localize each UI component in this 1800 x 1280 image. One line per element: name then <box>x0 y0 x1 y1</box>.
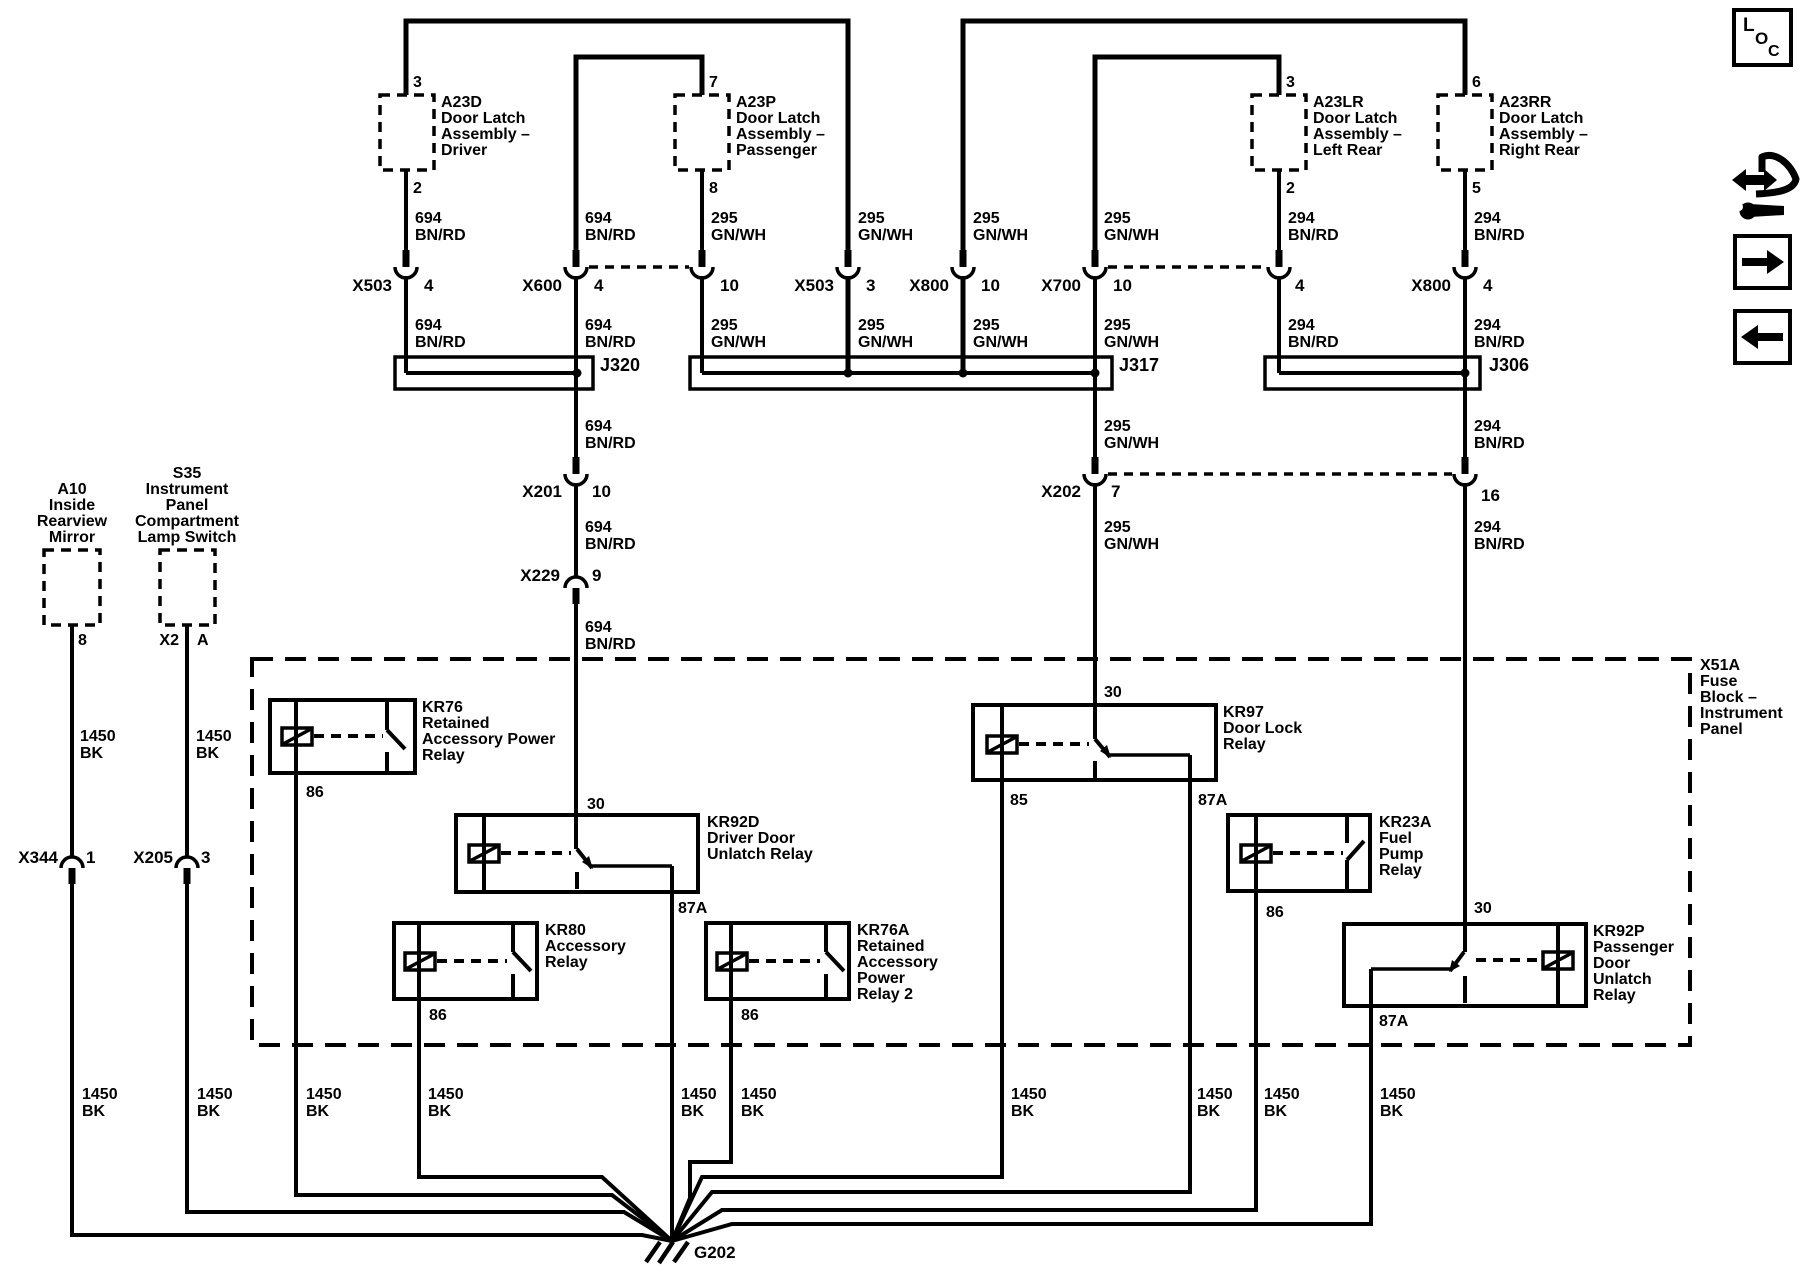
wire label 1450 BK (A10 ground leg) <box>82 1086 118 1120</box>
svg-text:Lamp Switch: Lamp Switch <box>138 529 237 546</box>
door latch assembly A23LR (left rear) <box>1252 94 1402 170</box>
wire label 1450 BK (KR76 ground leg) <box>306 1086 342 1120</box>
svg-text:GN/WH: GN/WH <box>1104 334 1159 351</box>
pin 8 of A23P <box>709 180 718 197</box>
wire: KR92P pin 87A to ground G202 <box>672 969 1371 1241</box>
wire: KR23A pin 86 to ground G202 <box>672 891 1256 1241</box>
door latch assembly A23D (driver) <box>380 94 530 170</box>
svg-text:Passenger: Passenger <box>736 142 817 159</box>
wire label 294 BN/RD below X800-4 <box>1474 317 1525 351</box>
wire label 1450 BK (KR80 ground leg) <box>428 1086 464 1120</box>
svg-text:X229: X229 <box>520 566 560 585</box>
wire: pin4 to J306 <box>1277 276 1281 373</box>
pin 3 of A23LR <box>1286 74 1295 91</box>
wire: J317 to X202 pin 7 <box>1093 373 1097 459</box>
relay KR80 accessory relay <box>394 922 626 999</box>
svg-text:7: 7 <box>1111 482 1120 501</box>
pin X2/A of S35 <box>159 632 209 649</box>
wire: A23RR pin 5 down to connector X800-4 <box>1463 170 1467 252</box>
pin 2 of A23LR <box>1286 180 1295 197</box>
svg-text:X51A: X51A <box>1700 657 1740 674</box>
wire label 694 BN/RD (X600 drop) <box>585 210 636 244</box>
pin 6 of A23RR <box>1472 74 1481 91</box>
wire label 1450 BK (KR97-87A ground leg) <box>1197 1086 1233 1120</box>
svg-text:X503: X503 <box>794 276 834 295</box>
pin 30 of KR92P <box>1474 900 1492 917</box>
svg-text:295: 295 <box>1104 418 1131 435</box>
svg-text:10: 10 <box>720 276 739 295</box>
svg-text:GN/WH: GN/WH <box>711 227 766 244</box>
svg-text:X600: X600 <box>522 276 562 295</box>
svg-text:295: 295 <box>1104 317 1131 334</box>
svg-text:GN/WH: GN/WH <box>973 227 1028 244</box>
wire label 295 GN/WH (X800-10 drop) <box>973 210 1028 244</box>
svg-text:1450: 1450 <box>196 728 232 745</box>
svg-text:30: 30 <box>1104 684 1122 701</box>
svg-text:O: O <box>1755 29 1768 48</box>
wire: KR97 pin 87A to ground G202 <box>672 755 1190 1241</box>
wire label 295 GN/WH (X503-3 drop) <box>858 210 913 244</box>
wire: KR76 pin 86 to ground G202 <box>296 773 672 1241</box>
svg-text:Door Lock: Door Lock <box>1223 720 1302 737</box>
svg-text:7: 7 <box>709 74 718 91</box>
icon: arrow left box <box>1735 311 1790 363</box>
wire label 295 GN/WH above X202-7 <box>1104 418 1159 452</box>
svg-text:1450: 1450 <box>1011 1086 1047 1103</box>
connector X229 pin 9 <box>520 566 601 604</box>
svg-text:294: 294 <box>1474 210 1501 227</box>
svg-text:X700: X700 <box>1041 276 1081 295</box>
svg-text:X205: X205 <box>133 848 173 867</box>
svg-text:BK: BK <box>1380 1103 1404 1120</box>
svg-text:BN/RD: BN/RD <box>1474 334 1525 351</box>
wire label 694 BN/RD (A23D pin 2) <box>415 210 466 244</box>
svg-text:694: 694 <box>415 210 442 227</box>
wire label 694 BN/RD below X229 <box>585 619 636 653</box>
svg-text:BN/RD: BN/RD <box>1288 334 1339 351</box>
svg-text:Relay 2: Relay 2 <box>857 986 913 1003</box>
wire: KR92D pin 87A to ground G202 <box>670 866 674 1242</box>
wire label 1450 BK (KR92P ground leg) <box>1380 1086 1416 1120</box>
svg-text:Left Rear: Left Rear <box>1313 142 1382 159</box>
svg-text:Driver: Driver <box>441 142 487 159</box>
svg-text:BK: BK <box>1011 1103 1035 1120</box>
wire: X800-10 to J317 <box>961 276 966 373</box>
ground G202 <box>646 1242 736 1263</box>
svg-text:30: 30 <box>1474 900 1492 917</box>
wire label 294 BN/RD below X202-16 <box>1474 519 1525 553</box>
legend box LOC <box>1734 10 1791 65</box>
wire: X700-10 through J317 <box>1093 276 1097 373</box>
svg-text:1450: 1450 <box>1380 1086 1416 1103</box>
svg-text:694: 694 <box>585 519 612 536</box>
svg-text:Panel: Panel <box>1700 721 1743 738</box>
svg-text:X503: X503 <box>352 276 392 295</box>
relay KR23A fuel pump relay <box>1228 814 1432 891</box>
svg-text:Fuel: Fuel <box>1379 830 1412 847</box>
connector X503 pin 3 <box>794 250 875 295</box>
wire label 294 BN/RD (A23RR pin 5) <box>1474 210 1525 244</box>
wire label 1450 BK (S35 ground leg) <box>197 1086 233 1120</box>
svg-text:GN/WH: GN/WH <box>1104 227 1159 244</box>
svg-text:KR76: KR76 <box>422 699 463 716</box>
svg-text:KR23A: KR23A <box>1379 814 1432 831</box>
svg-text:A23D: A23D <box>441 94 482 111</box>
svg-text:BK: BK <box>741 1103 765 1120</box>
svg-text:1450: 1450 <box>681 1086 717 1103</box>
wire: X600-4 through J320 <box>574 276 578 373</box>
svg-text:J317: J317 <box>1119 355 1159 375</box>
connector X700 pin 10 <box>1041 250 1132 295</box>
svg-text:BN/RD: BN/RD <box>1288 227 1339 244</box>
svg-text:C: C <box>1768 43 1780 60</box>
wire label 295 GN/WH (X700-10 drop) <box>1104 210 1159 244</box>
wire: KR80 pin 86 to ground G202 <box>419 999 672 1241</box>
splice pack J320 <box>395 355 640 389</box>
pin 87A of KR97 <box>1198 792 1228 809</box>
wire: A23P pin 8 down to connector pin 10 <box>700 170 704 252</box>
wire label 694 BN/RD below X201 <box>585 519 636 553</box>
svg-text:Passenger: Passenger <box>1593 939 1674 956</box>
svg-text:X800: X800 <box>909 276 949 295</box>
wire: feed from A23D pin 3 to X503 pin 3 drop <box>406 21 848 252</box>
svg-text:295: 295 <box>711 317 738 334</box>
svg-text:86: 86 <box>306 784 324 801</box>
dashed connector link X700 to pin 4 <box>1108 265 1266 269</box>
svg-text:295: 295 <box>973 317 1000 334</box>
svg-text:J320: J320 <box>600 355 640 375</box>
svg-text:Mirror: Mirror <box>49 529 95 546</box>
svg-text:Unlatch: Unlatch <box>1593 971 1652 988</box>
svg-text:3: 3 <box>866 276 875 295</box>
svg-text:A23P: A23P <box>736 94 776 111</box>
splice pack J306 <box>1265 355 1529 389</box>
svg-text:Assembly –: Assembly – <box>441 126 530 143</box>
svg-text:BN/RD: BN/RD <box>1474 227 1525 244</box>
svg-text:9: 9 <box>592 566 601 585</box>
wire label 294 BN/RD (A23LR pin 2) <box>1288 210 1339 244</box>
svg-text:Rearview: Rearview <box>37 513 108 530</box>
svg-text:Door: Door <box>1593 955 1630 972</box>
svg-text:A23LR: A23LR <box>1313 94 1364 111</box>
svg-text:BK: BK <box>80 745 104 762</box>
wire: feed from X800 pin 10 drop to A23RR pin 6 <box>963 21 1465 252</box>
svg-text:A: A <box>197 632 209 649</box>
connector pin 4 (A23LR side of X700) <box>1268 250 1305 295</box>
svg-text:Door Latch: Door Latch <box>1499 110 1583 127</box>
connector X205 pin 3 <box>133 848 210 884</box>
svg-text:BK: BK <box>196 745 220 762</box>
svg-text:Relay: Relay <box>545 954 588 971</box>
svg-text:16: 16 <box>1481 486 1500 505</box>
svg-text:4: 4 <box>1295 276 1305 295</box>
relay KR97 door lock relay <box>973 704 1302 780</box>
svg-text:Door Latch: Door Latch <box>1313 110 1397 127</box>
svg-text:5: 5 <box>1472 180 1481 197</box>
relay KR92D driver door unlatch relay <box>456 814 813 892</box>
svg-text:Block –: Block – <box>1700 689 1757 706</box>
svg-text:BN/RD: BN/RD <box>1474 435 1525 452</box>
svg-text:3: 3 <box>413 74 422 91</box>
svg-text:Instrument: Instrument <box>146 481 229 498</box>
wire label 295 GN/WH below X503-3 <box>858 317 913 351</box>
svg-text:3: 3 <box>201 848 210 867</box>
wire label 294 BN/RD below pin 4 <box>1288 317 1339 351</box>
svg-text:GN/WH: GN/WH <box>973 334 1028 351</box>
connector X202 pin 7 <box>1041 457 1120 501</box>
svg-text:10: 10 <box>1113 276 1132 295</box>
svg-text:Accessory Power: Accessory Power <box>422 731 555 748</box>
svg-text:1: 1 <box>86 848 95 867</box>
svg-text:L: L <box>1743 15 1755 36</box>
connector X503 pin 4 <box>352 250 434 295</box>
svg-text:Fuse: Fuse <box>1700 673 1737 690</box>
svg-text:BN/RD: BN/RD <box>585 227 636 244</box>
pin 85 of KR97 <box>1010 792 1028 809</box>
svg-text:Accessory: Accessory <box>857 954 938 971</box>
pin 86 of KR23A <box>1266 904 1284 921</box>
svg-text:Power: Power <box>857 970 905 987</box>
svg-text:Inside: Inside <box>49 497 95 514</box>
svg-text:87A: 87A <box>678 900 708 917</box>
svg-text:10: 10 <box>592 482 611 501</box>
svg-text:BN/RD: BN/RD <box>585 636 636 653</box>
svg-text:J306: J306 <box>1489 355 1529 375</box>
svg-text:1450: 1450 <box>741 1086 777 1103</box>
svg-text:Assembly –: Assembly – <box>736 126 825 143</box>
svg-text:BN/RD: BN/RD <box>415 227 466 244</box>
svg-text:GN/WH: GN/WH <box>1104 536 1159 553</box>
svg-text:1450: 1450 <box>306 1086 342 1103</box>
pin 3 of A23D <box>413 74 422 91</box>
icon: wrench <box>1735 203 1784 220</box>
wire label 1450 BK (A10) <box>80 728 116 762</box>
svg-text:Right Rear: Right Rear <box>1499 142 1580 159</box>
svg-text:4: 4 <box>594 276 604 295</box>
svg-text:295: 295 <box>858 317 885 334</box>
svg-text:KR76A: KR76A <box>857 922 910 939</box>
svg-text:4: 4 <box>424 276 434 295</box>
svg-text:KR92D: KR92D <box>707 814 759 831</box>
wire: X201 to X229 <box>574 483 578 578</box>
svg-text:Accessory: Accessory <box>545 938 626 955</box>
svg-text:S35: S35 <box>173 465 202 482</box>
wire label 1450 BK (KR92D ground leg) <box>681 1086 717 1120</box>
svg-text:1450: 1450 <box>197 1086 233 1103</box>
svg-text:694: 694 <box>585 210 612 227</box>
wire label 694 BN/RD below X503-4 <box>415 317 466 351</box>
svg-text:30: 30 <box>587 796 605 813</box>
svg-text:G202: G202 <box>694 1243 736 1262</box>
svg-text:86: 86 <box>741 1007 759 1024</box>
relay KR76 retained accessory power relay <box>270 699 555 773</box>
svg-text:Relay: Relay <box>1223 736 1266 753</box>
svg-text:BK: BK <box>306 1103 330 1120</box>
wire label 295 GN/WH below X202-7 <box>1104 519 1159 553</box>
svg-text:X2: X2 <box>159 632 179 649</box>
wire: X202-7 down to KR97 pin 30 <box>1093 483 1097 739</box>
svg-text:1450: 1450 <box>82 1086 118 1103</box>
fuse block X51A (instrument panel) <box>252 657 1783 1045</box>
wire label 295 GN/WH below pin 10 <box>711 317 766 351</box>
icon: arrow right box <box>1735 236 1790 288</box>
wire: J320 to X201 <box>574 373 578 459</box>
svg-text:294: 294 <box>1474 317 1501 334</box>
svg-text:Panel: Panel <box>166 497 209 514</box>
svg-text:4: 4 <box>1483 276 1493 295</box>
pin 86 of KR80 <box>429 1007 447 1024</box>
svg-text:KR97: KR97 <box>1223 704 1264 721</box>
svg-text:BN/RD: BN/RD <box>585 435 636 452</box>
svg-text:KR92P: KR92P <box>1593 923 1645 940</box>
wire: feed from X600 pin 4 drop to A23P pin 7 <box>576 57 702 252</box>
svg-text:294: 294 <box>1288 210 1315 227</box>
svg-text:Door Latch: Door Latch <box>736 110 820 127</box>
svg-text:10: 10 <box>981 276 1000 295</box>
svg-text:694: 694 <box>585 619 612 636</box>
wire: X229 down to KR92D pin 30 <box>574 602 578 849</box>
svg-text:A23RR: A23RR <box>1499 94 1552 111</box>
wire label 294 BN/RD above X202-16 <box>1474 418 1525 452</box>
relay KR76A retained accessory power relay 2 <box>706 922 938 1003</box>
svg-text:694: 694 <box>585 418 612 435</box>
svg-text:BK: BK <box>1197 1103 1221 1120</box>
svg-text:8: 8 <box>78 632 87 649</box>
svg-text:GN/WH: GN/WH <box>1104 435 1159 452</box>
wire: A23D pin 2 down to connector X503-4 <box>404 170 408 252</box>
svg-text:X201: X201 <box>522 482 562 501</box>
svg-text:Unlatch Relay: Unlatch Relay <box>707 846 813 863</box>
svg-text:Relay: Relay <box>1593 987 1636 1004</box>
svg-text:BK: BK <box>82 1103 106 1120</box>
svg-text:Instrument: Instrument <box>1700 705 1783 722</box>
splice pack J317 <box>690 355 1159 389</box>
svg-text:6: 6 <box>1472 74 1481 91</box>
pin 5 of A23RR <box>1472 180 1481 197</box>
svg-text:GN/WH: GN/WH <box>858 227 913 244</box>
svg-text:BK: BK <box>197 1103 221 1120</box>
wire label 295 GN/WH (A23P pin 8) <box>711 210 766 244</box>
svg-text:294: 294 <box>1288 317 1315 334</box>
connector X600 pin 4 <box>522 250 604 295</box>
pin 86 of KR76A <box>741 1007 759 1024</box>
wire label 1450 BK (KR76A ground leg) <box>741 1086 777 1120</box>
svg-text:Assembly –: Assembly – <box>1313 126 1402 143</box>
wire: A23LR pin 2 down to connector pin 4 <box>1277 170 1281 252</box>
wire: KR76A pin 86 to ground G202 <box>672 999 731 1241</box>
svg-text:295: 295 <box>858 210 885 227</box>
pin 87A of KR92P <box>1379 1013 1409 1030</box>
svg-text:BK: BK <box>428 1103 452 1120</box>
svg-text:A10: A10 <box>57 481 86 498</box>
svg-text:BN/RD: BN/RD <box>585 334 636 351</box>
wire: X205 to ground G202 <box>187 882 672 1241</box>
wire label 295 GN/WH below X700-10 <box>1104 317 1159 351</box>
svg-text:X800: X800 <box>1411 276 1451 295</box>
pin 8 of A10 <box>78 632 87 649</box>
relay KR92P passenger door unlatch relay <box>1344 923 1674 1006</box>
svg-text:694: 694 <box>585 317 612 334</box>
icon: double arrow with outline <box>1732 155 1796 194</box>
svg-text:294: 294 <box>1474 418 1501 435</box>
wire: X202-16 down to KR92P pin 30 <box>1463 483 1467 952</box>
svg-text:Assembly –: Assembly – <box>1499 126 1588 143</box>
wire: X800-4 through J306 <box>1463 276 1467 373</box>
wire: pin10 to J317 <box>700 276 704 373</box>
svg-text:Door Latch: Door Latch <box>441 110 525 127</box>
wire: S35 pin A down to X205 <box>185 625 189 858</box>
pin 86 of KR76 <box>306 784 324 801</box>
connector X201 pin 10 <box>522 457 611 501</box>
svg-text:BN/RD: BN/RD <box>415 334 466 351</box>
svg-text:BK: BK <box>1264 1103 1288 1120</box>
svg-text:GN/WH: GN/WH <box>858 334 913 351</box>
svg-text:295: 295 <box>711 210 738 227</box>
svg-text:295: 295 <box>1104 210 1131 227</box>
dashed connector link X600 to pin 10 <box>589 265 689 269</box>
svg-text:694: 694 <box>415 317 442 334</box>
svg-text:87A: 87A <box>1379 1013 1409 1030</box>
pin 30 of KR97 <box>1104 684 1122 701</box>
inside rearview mirror A10 <box>37 481 108 625</box>
svg-text:1450: 1450 <box>80 728 116 745</box>
pin 30 of KR92D <box>587 796 605 813</box>
svg-text:Driver Door: Driver Door <box>707 830 795 847</box>
wire: feed from X700 pin 10 drop to A23LR pin 3 <box>1095 57 1279 252</box>
wire label 1450 BK (KR97-85 ground leg) <box>1011 1086 1047 1120</box>
wire label 1450 BK (S35) <box>196 728 232 762</box>
svg-text:86: 86 <box>1266 904 1284 921</box>
svg-text:Retained: Retained <box>857 938 925 955</box>
svg-text:GN/WH: GN/WH <box>711 334 766 351</box>
door latch assembly A23P (passenger) <box>675 94 825 170</box>
svg-text:Pump: Pump <box>1379 846 1424 863</box>
svg-text:BK: BK <box>681 1103 705 1120</box>
svg-text:3: 3 <box>1286 74 1295 91</box>
svg-text:1450: 1450 <box>1264 1086 1300 1103</box>
pin 87A of KR92D <box>678 900 708 917</box>
wire: A10 pin 8 down to X344 <box>70 625 74 858</box>
svg-text:X202: X202 <box>1041 482 1081 501</box>
connector X344 pin 1 <box>18 848 95 884</box>
svg-text:2: 2 <box>413 180 422 197</box>
svg-text:85: 85 <box>1010 792 1028 809</box>
wire: X503-4 to J320 <box>404 276 408 373</box>
svg-text:1450: 1450 <box>1197 1086 1233 1103</box>
svg-text:294: 294 <box>1474 519 1501 536</box>
pin 2 of A23D <box>413 180 422 197</box>
svg-text:BN/RD: BN/RD <box>1474 536 1525 553</box>
svg-text:Relay: Relay <box>1379 862 1422 879</box>
connector pin 10 (A23P side of X600) <box>691 250 739 295</box>
wire label 1450 BK (KR23A ground leg) <box>1264 1086 1300 1120</box>
connector X800 pin 4 <box>1411 250 1493 295</box>
instrument panel compartment lamp switch S35 <box>135 465 240 625</box>
dashed connector link X202 pin 7 to pin 16 <box>1108 472 1452 476</box>
svg-text:X344: X344 <box>18 848 58 867</box>
wire: X503-3 to J317 <box>846 276 851 373</box>
svg-text:BN/RD: BN/RD <box>585 536 636 553</box>
svg-text:8: 8 <box>709 180 718 197</box>
svg-text:87A: 87A <box>1198 792 1228 809</box>
wire: J306 to X202 pin 16 <box>1463 373 1467 459</box>
svg-text:Relay: Relay <box>422 747 465 764</box>
wire label 295 GN/WH below X800-10 <box>973 317 1028 351</box>
svg-text:Retained: Retained <box>422 715 490 732</box>
pin 7 of A23P <box>709 74 718 91</box>
door latch assembly A23RR (right rear) <box>1438 94 1588 170</box>
svg-text:295: 295 <box>973 210 1000 227</box>
